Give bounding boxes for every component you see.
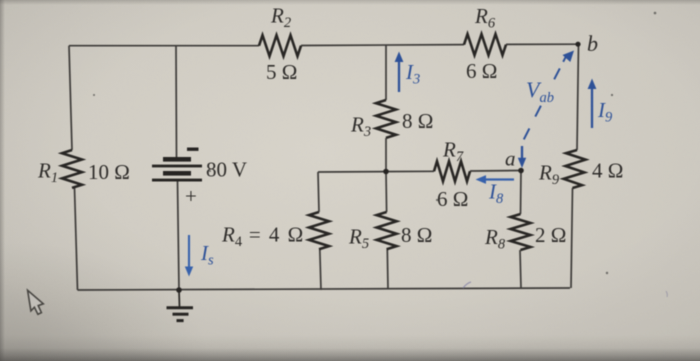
wire middle horizontal bbox=[318, 171, 521, 173]
node b dot bbox=[575, 42, 580, 47]
wire R8 branch bbox=[520, 171, 521, 289]
current arrow Is bbox=[185, 235, 193, 277]
resistor R7 zigzag bbox=[434, 161, 470, 181]
node a dot bbox=[518, 168, 524, 174]
resistor R8 zigzag bbox=[511, 214, 531, 250]
wire bottom horizontal bbox=[78, 288, 571, 290]
wire left vertical bbox=[69, 46, 78, 290]
wire R3 branch bbox=[385, 45, 387, 171]
ground symbol bbox=[167, 290, 194, 321]
battery minus sign bbox=[187, 148, 199, 151]
resistor R5 zigzag bbox=[377, 212, 397, 249]
voltage arrow Vab dashed with arrowhead at b bbox=[524, 51, 574, 140]
wire R5 branch bbox=[386, 172, 388, 290]
wire R4 branch bbox=[318, 172, 321, 290]
mouse cursor bbox=[28, 290, 44, 314]
wire top horizontal bbox=[69, 44, 578, 46]
current arrow I3 bbox=[395, 52, 404, 93]
wire right vertical from b through R9 bbox=[571, 44, 579, 288]
resistor R6 zigzag bbox=[464, 34, 506, 55]
resistor R9 zigzag bbox=[564, 150, 586, 188]
texture grain overlay bbox=[0, 0, 1, 1]
wire battery branch bbox=[176, 46, 179, 290]
resistor R4 zigzag bbox=[309, 212, 329, 249]
arrow into node a (Vab tail) bbox=[518, 146, 526, 168]
node ground junction dot bbox=[176, 287, 182, 293]
photo specks bbox=[93, 12, 656, 274]
current arrow I8 bbox=[476, 175, 515, 184]
resistor R2 zigzag bbox=[259, 35, 301, 56]
battery 80V plates bbox=[152, 157, 202, 182]
node junction dot R3/middle bbox=[383, 169, 389, 175]
faint blue smudge bbox=[463, 282, 471, 288]
current arrow I9 bbox=[588, 79, 597, 129]
resistor R1 zigzag bbox=[62, 150, 82, 188]
resistor R3 zigzag bbox=[376, 100, 396, 138]
